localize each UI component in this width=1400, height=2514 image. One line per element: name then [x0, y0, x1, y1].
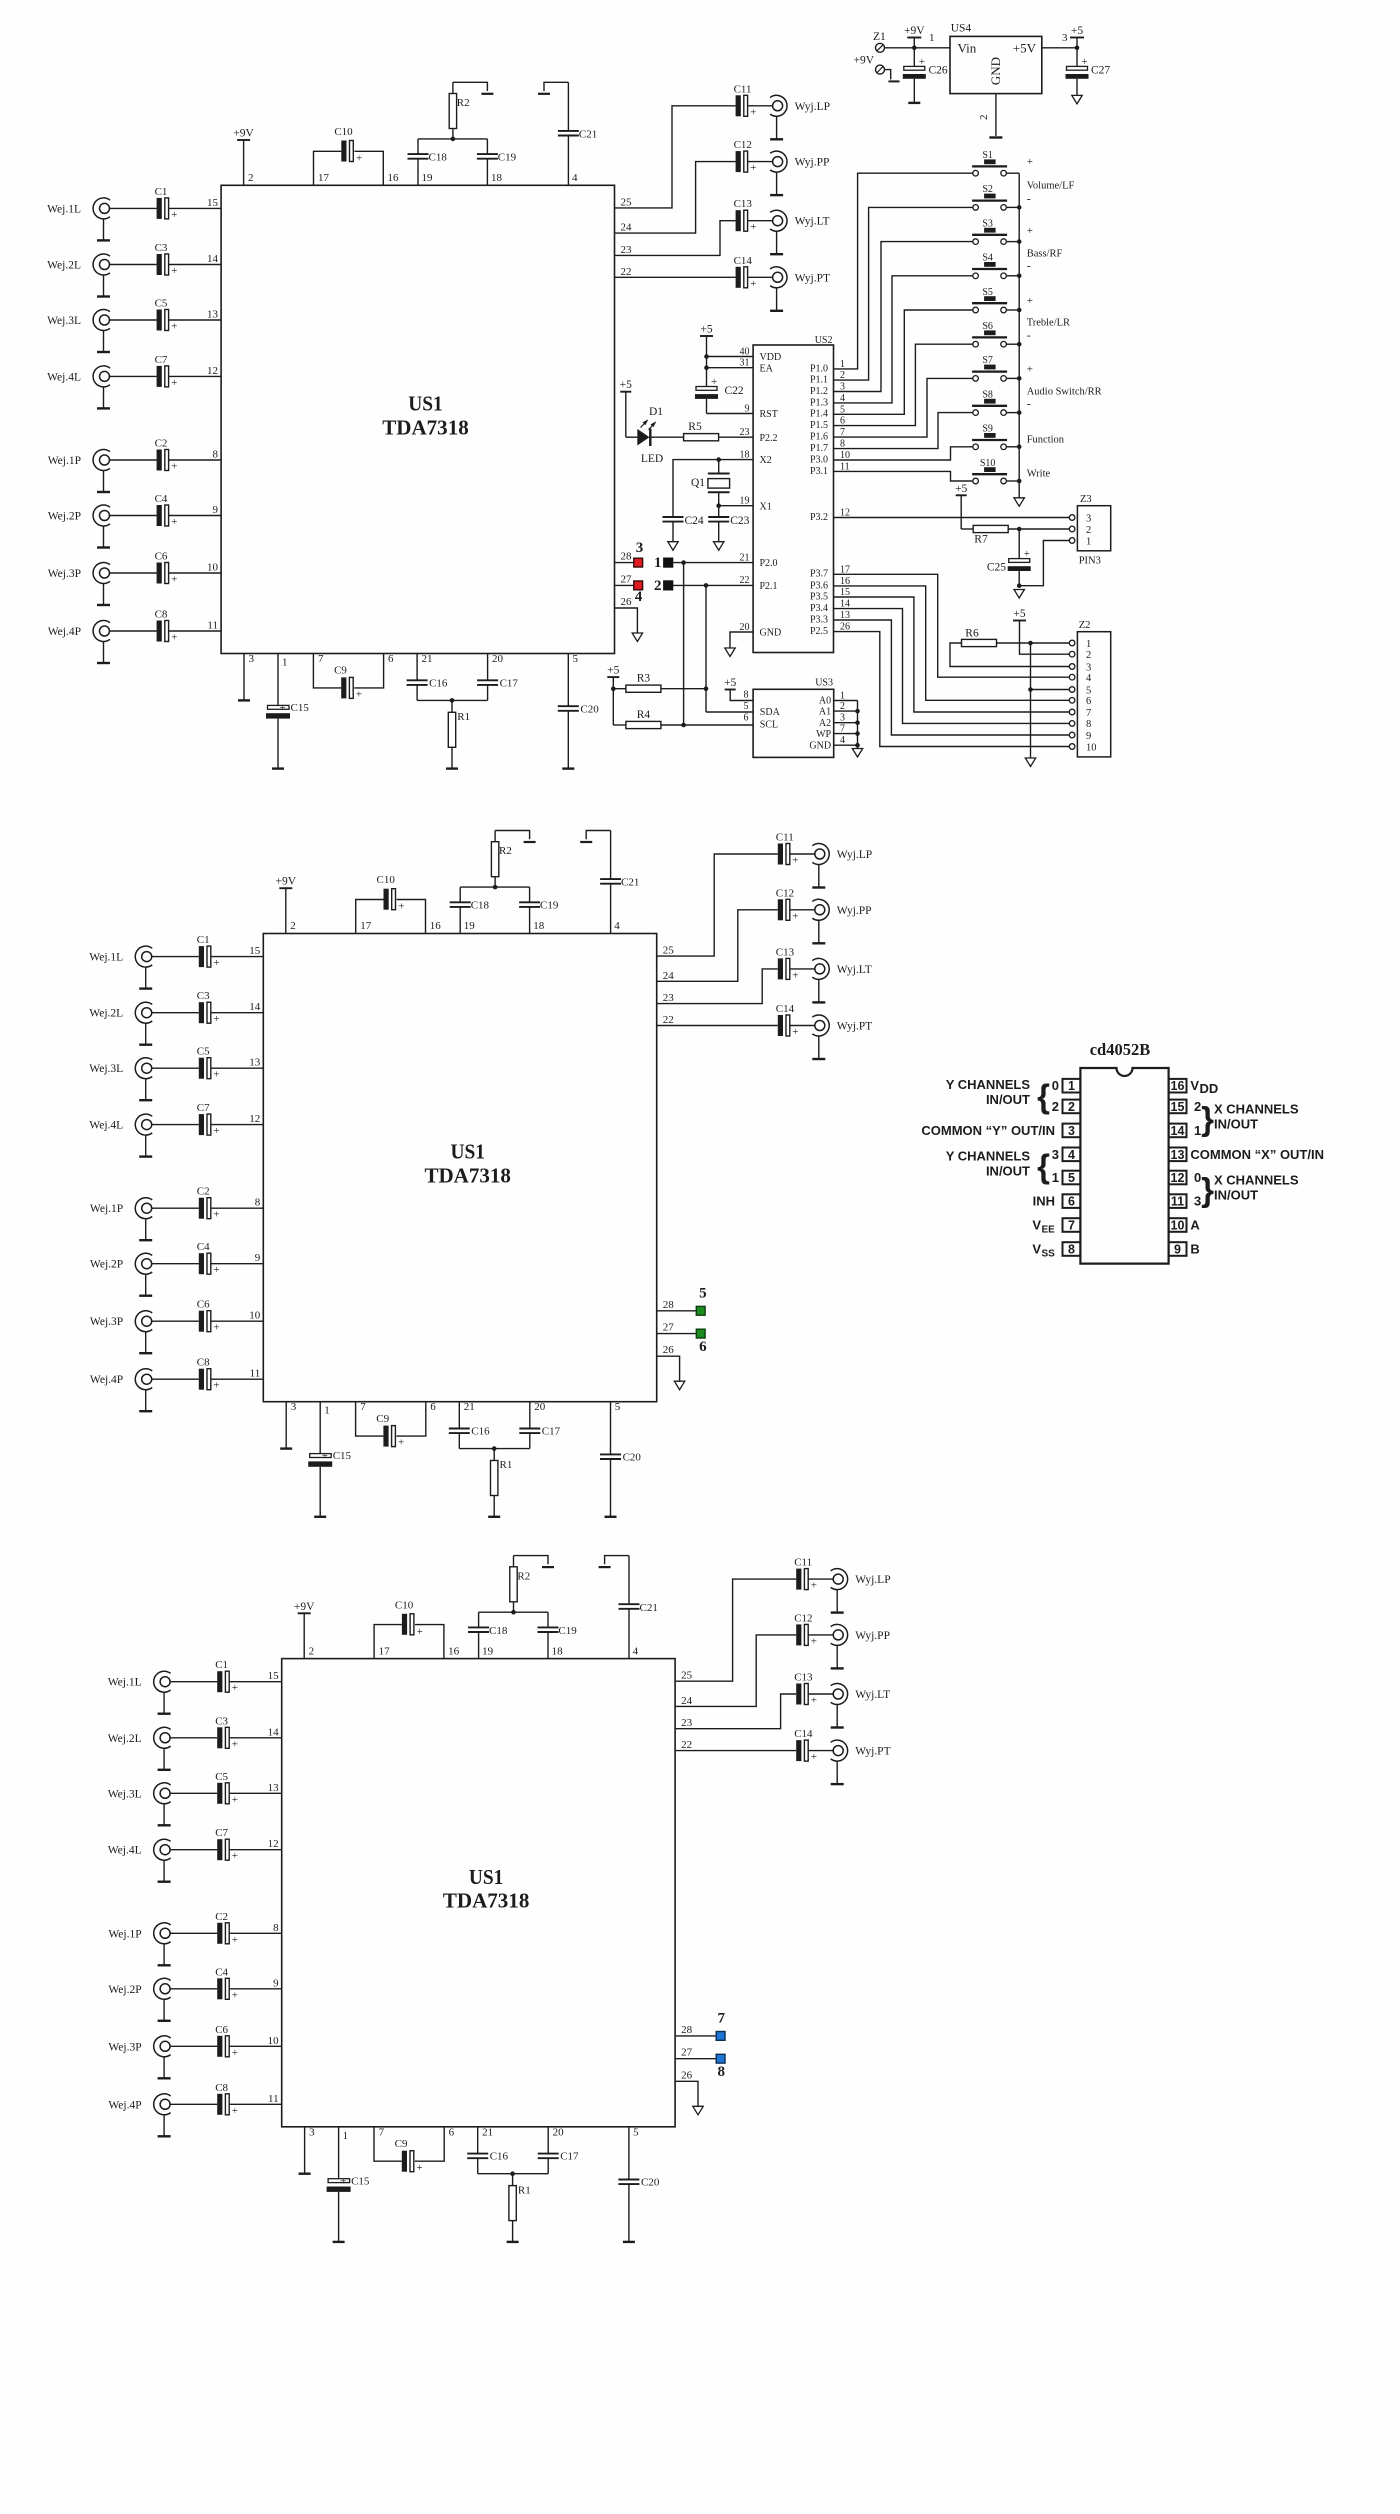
ground bar for C15 [333, 2241, 345, 2243]
svg-text:9: 9 [1174, 1243, 1181, 1257]
svg-text:C27: C27 [1091, 65, 1110, 77]
schematic variant 3: TDA7318 standalone (blue) [108, 1556, 891, 2243]
wire SDA vertical [705, 585, 707, 712]
svg-text:8: 8 [1086, 719, 1091, 730]
svg-text:16: 16 [388, 172, 400, 184]
input jack Wej.2L [47, 254, 110, 297]
svg-text:+: + [750, 278, 756, 290]
svg-text:Y CHANNELS: Y CHANNELS [946, 1077, 1031, 1092]
input jack Wej.3L [47, 310, 110, 353]
capacitor C10 across pins 17,16 [374, 1599, 460, 1658]
svg-text:Treble/LR: Treble/LR [1027, 317, 1070, 328]
wire US1 pin 23 to C13 [657, 969, 778, 1004]
US3 right pins to ground [809, 690, 859, 751]
svg-text:C6: C6 [197, 1299, 210, 1311]
svg-text:B: B [1190, 1242, 1199, 1257]
wire Wej.3L to C5 [151, 1067, 199, 1069]
svg-text:C2: C2 [197, 1186, 210, 1198]
svg-text:6: 6 [699, 1339, 707, 1355]
svg-text:10: 10 [1171, 1219, 1185, 1233]
resistor R1 [448, 700, 470, 768]
svg-text:Function: Function [1027, 435, 1065, 446]
svg-text:-: - [1027, 192, 1031, 206]
svg-text:C21: C21 [640, 1602, 658, 1614]
wire US2 to switch S10 [834, 471, 973, 481]
wire US1 pin 22 to C14 [657, 1014, 778, 1026]
wire X2 to C24 column [673, 460, 753, 516]
node C16-C17-R1 junction [450, 698, 455, 703]
svg-text:5: 5 [1086, 685, 1091, 696]
svg-text:+: + [750, 106, 756, 118]
svg-text:TDA7318: TDA7318 [424, 1164, 511, 1188]
capacitor C13 [734, 198, 757, 233]
svg-text:R6: R6 [965, 628, 979, 640]
svg-text:X CHANNELS: X CHANNELS [1214, 1102, 1299, 1117]
wire C14 to jack Wyj.PT [747, 276, 772, 278]
svg-text:21: 21 [482, 2126, 493, 2138]
wire US2 to switch S5 [834, 310, 973, 414]
svg-text:Wyj.PP: Wyj.PP [795, 157, 830, 169]
wire SCL vertical [683, 563, 685, 725]
svg-text:S6: S6 [982, 321, 993, 332]
svg-text:23: 23 [740, 427, 750, 438]
ground bar for Wyj.PP [812, 942, 825, 944]
svg-text:S2: S2 [982, 184, 993, 195]
svg-text:C11: C11 [794, 1557, 812, 1569]
svg-text:1: 1 [1086, 536, 1091, 547]
svg-text:11: 11 [1171, 1195, 1184, 1209]
capacitor C8 [215, 2082, 238, 2117]
junction X2-Q1 [716, 457, 721, 462]
+5 supply at C27 [1070, 25, 1084, 48]
svg-text:X CHANNELS: X CHANNELS [1214, 1173, 1299, 1188]
svg-text:23: 23 [681, 1717, 693, 1729]
svg-text:A0: A0 [819, 696, 831, 707]
svg-text:+: + [213, 1380, 219, 1392]
svg-text:27: 27 [681, 2047, 693, 2059]
svg-text:+: + [171, 574, 177, 586]
input jack Wej.2P [108, 1978, 170, 2021]
ground bar for Wej.4P [139, 1410, 152, 1412]
switch S10 [972, 458, 1007, 484]
svg-text:COMMON “X” OUT/IN: COMMON “X” OUT/IN [1190, 1147, 1324, 1162]
svg-text:22: 22 [740, 575, 750, 586]
svg-text:4: 4 [840, 735, 845, 746]
output jack Wyj.LP [770, 95, 830, 139]
ground stub left of C21 [580, 831, 610, 843]
wire C13 to jack Wyj.LT [808, 1693, 833, 1695]
wire US1 pin 24 to C12 [657, 910, 778, 982]
wire US1 pin 28 to node 7 [675, 2024, 716, 2036]
node C16-C17-R1 junction [492, 1446, 497, 1451]
US3 left pin labels [744, 701, 781, 731]
wire C3 to US1 pin 14 [168, 253, 221, 265]
wire C2 to US1 pin 8 [211, 1197, 264, 1209]
svg-text:PIN3: PIN3 [1079, 556, 1101, 567]
capacitor C19 on pin 18 [538, 1612, 578, 1658]
svg-text:8: 8 [273, 1922, 279, 1934]
svg-text:C16: C16 [471, 1426, 490, 1438]
capacitor C7 [155, 354, 178, 389]
capacitor C19 on pin 18 [477, 139, 517, 185]
ground stub right of R2 [514, 1556, 555, 1568]
svg-text:C2: C2 [155, 438, 168, 450]
svg-text:+: + [416, 2162, 422, 2174]
wire Wej.3P to C6 [109, 572, 157, 574]
+5 supply for LED [620, 379, 638, 437]
svg-text:C13: C13 [794, 1672, 813, 1684]
svg-text:10: 10 [249, 1310, 261, 1322]
node R2-C18-C19 junction [451, 137, 456, 142]
svg-text:C18: C18 [489, 1625, 508, 1637]
switch S7 [972, 355, 1007, 381]
capacitor C5 [197, 1046, 220, 1081]
svg-text:2: 2 [290, 920, 296, 932]
wire US2 to switch S4 [834, 276, 973, 403]
svg-text:1: 1 [282, 657, 288, 669]
svg-text:19: 19 [482, 1645, 494, 1657]
svg-text:S9: S9 [982, 424, 993, 435]
+5 pullup supply R3 R4 [607, 665, 619, 725]
wire C6 to US1 pin 10 [211, 1310, 264, 1322]
capacitor C16 on pin 21 [449, 1401, 494, 1448]
wire US1 pin 22 to C14 [675, 1739, 796, 1751]
svg-text:Bass/RF: Bass/RF [1027, 248, 1063, 259]
wire C5 to US1 pin 13 [229, 1782, 282, 1794]
svg-text:2: 2 [1068, 1100, 1075, 1114]
junction R7-C25 [1017, 527, 1022, 532]
svg-text:Wyj.PT: Wyj.PT [855, 1746, 890, 1758]
svg-text:C3: C3 [155, 242, 168, 254]
svg-text:+: + [1027, 295, 1033, 307]
wire switch S3 to bus [1006, 239, 1021, 244]
svg-text:+5: +5 [607, 665, 619, 677]
switch S8 [972, 389, 1007, 415]
wire switch S7 to bus [1006, 376, 1021, 381]
svg-text:Wyj.PP: Wyj.PP [837, 905, 872, 917]
wire C13 to jack Wyj.LT [790, 968, 815, 970]
svg-text:C20: C20 [580, 703, 599, 715]
svg-text:25: 25 [621, 196, 633, 208]
+5 to US3 pin 8 [724, 677, 753, 701]
wire switch S2 to bus [1006, 205, 1021, 210]
wire US1 pin 28 to node 5 [657, 1299, 697, 1311]
svg-text:13: 13 [207, 309, 219, 321]
capacitor C8 [155, 609, 178, 644]
wire switch S4 to bus [1006, 274, 1021, 279]
svg-text:C16: C16 [429, 677, 448, 689]
ground bar for Wyj.PP [831, 1667, 844, 1669]
svg-text:6: 6 [744, 712, 749, 723]
wire US2 to Z2 [834, 632, 1070, 747]
svg-text:C19: C19 [558, 1625, 577, 1637]
svg-text:+: + [398, 1437, 404, 1449]
wire C8 to US1 pin 11 [168, 620, 221, 632]
node R2-C18-C19 junction [511, 1610, 516, 1615]
ground stub left of C21 [538, 82, 568, 94]
cd4052B left labels [921, 1077, 1059, 1260]
svg-text:1: 1 [929, 32, 935, 44]
svg-text:C14: C14 [776, 1003, 795, 1015]
svg-text:18: 18 [552, 1645, 564, 1657]
svg-text:+5: +5 [1013, 608, 1025, 620]
wire Wej.1L to C1 [109, 207, 157, 209]
svg-text:13: 13 [268, 1782, 280, 1794]
svg-text:Wej.4L: Wej.4L [108, 1845, 142, 1857]
capacitor C6 [155, 551, 178, 586]
wire Wej.3L to C5 [109, 319, 157, 321]
svg-text:+: + [232, 1850, 238, 1862]
resistor R3 [626, 673, 706, 693]
ground stub left of C21 [599, 1556, 629, 1568]
svg-text:+: + [792, 1026, 798, 1038]
svg-text:C10: C10 [334, 126, 353, 138]
svg-text:C17: C17 [542, 1426, 561, 1438]
svg-text:C25: C25 [987, 562, 1006, 574]
input jack Wej.2P [48, 505, 110, 548]
capacitor C18 on pin 19 [468, 1612, 508, 1658]
svg-text:-: - [1027, 397, 1031, 411]
svg-text:+: + [171, 209, 177, 221]
input jack Wej.4P [90, 1369, 152, 1412]
capacitor C4 [197, 1241, 220, 1276]
svg-text:5: 5 [633, 2126, 639, 2138]
svg-text:28: 28 [663, 1299, 675, 1311]
resistor R2 [449, 82, 469, 139]
input jack Wej.3P [90, 1311, 152, 1353]
svg-text:19: 19 [464, 920, 476, 932]
svg-text:C6: C6 [155, 551, 168, 563]
svg-text:15: 15 [207, 197, 219, 209]
svg-text:Wej.3L: Wej.3L [47, 315, 81, 327]
wire C1 to US1 pin 15 [229, 1670, 282, 1682]
svg-text:R2: R2 [517, 1570, 530, 1582]
+5 supply for Z2 [1013, 608, 1069, 654]
capacitor C3 [155, 242, 178, 277]
svg-text:US1: US1 [469, 1865, 504, 1889]
output jack Wyj.PP [812, 899, 871, 943]
svg-text:+: + [280, 702, 286, 714]
svg-text:3: 3 [1052, 1147, 1059, 1162]
svg-text:C13: C13 [776, 946, 795, 958]
capacitor C12 [734, 139, 757, 174]
svg-text:27: 27 [663, 1322, 675, 1334]
wire switch S5 to bus [1006, 308, 1021, 313]
capacitor C20 on pin 5 [558, 653, 599, 769]
svg-text:7: 7 [1086, 708, 1091, 719]
resistor R2 [491, 831, 511, 888]
svg-text:+5: +5 [955, 483, 967, 495]
svg-text:COMMON “Y” OUT/IN: COMMON “Y” OUT/IN [921, 1123, 1055, 1138]
svg-text:17: 17 [318, 172, 330, 184]
schematic variant 1: TDA7318 with microcontroller [47, 82, 830, 769]
svg-text:21: 21 [740, 552, 750, 563]
svg-text:2: 2 [1086, 650, 1091, 661]
svg-text:26: 26 [663, 1344, 675, 1356]
svg-text:P3.1: P3.1 [810, 466, 828, 477]
wire X1 [719, 505, 753, 507]
svg-text:C9: C9 [395, 2138, 408, 2150]
ground arrow switch bus [1014, 498, 1024, 507]
ground bar for Wej.2L [158, 1769, 171, 1771]
svg-text:11: 11 [250, 1368, 261, 1380]
svg-text:{: { [1037, 1078, 1050, 1115]
connector Z2 [1069, 620, 1110, 757]
wire C6 to US1 pin 10 [229, 2035, 282, 2047]
junction C25 ground [1017, 583, 1022, 588]
wire Wej.2P to C4 [151, 1263, 199, 1265]
svg-text:Wyj.LP: Wyj.LP [795, 101, 830, 113]
svg-text:+9V: +9V [294, 1601, 315, 1613]
wire C22 to RST [707, 413, 754, 415]
svg-text:Wej.2L: Wej.2L [47, 260, 81, 272]
capacitor C9 across pins 7,6 [356, 1401, 437, 1449]
svg-text:25: 25 [681, 1670, 693, 1682]
wire node2 to US2 P2.1 [673, 584, 754, 586]
input jack Wej.3P [108, 2036, 170, 2079]
svg-text:P3.7: P3.7 [810, 569, 828, 580]
switch S4 [972, 253, 1007, 279]
svg-text:D1: D1 [649, 406, 663, 418]
svg-text:+: + [171, 377, 177, 389]
svg-text:A2: A2 [819, 718, 831, 729]
capacitor C7 [197, 1102, 220, 1137]
svg-text:R5: R5 [688, 421, 702, 433]
svg-text:+: + [1027, 363, 1033, 375]
svg-text:Q1: Q1 [691, 477, 705, 489]
wire US1 pin 28 to node 3 [615, 551, 634, 563]
svg-text:15: 15 [249, 945, 261, 957]
input jack Wej.4P [108, 2094, 170, 2137]
wire US1 pin 27 to node 6 [657, 1322, 697, 1334]
wire C3 to US1 pin 14 [229, 1726, 282, 1738]
node square 3 [634, 540, 643, 567]
svg-text:+9V: +9V [904, 25, 925, 37]
junction R3 +5 [611, 686, 626, 691]
+9V supply at C26 [904, 25, 925, 48]
svg-text:Wej.4L: Wej.4L [47, 371, 81, 383]
wire US1 pin 24 to C12 [675, 1635, 796, 1707]
node black square 1 (SCL) [654, 555, 673, 571]
svg-text:GND: GND [760, 628, 782, 639]
node R2-C18-C19 junction [493, 885, 498, 890]
svg-text:P2.2: P2.2 [760, 433, 778, 444]
input jack Wej.1P [48, 450, 110, 493]
svg-text:4: 4 [572, 172, 578, 184]
svg-text:C18: C18 [429, 152, 448, 164]
capacitor C27 [1066, 56, 1111, 96]
svg-text:C6: C6 [215, 2024, 228, 2036]
svg-text:14: 14 [268, 1726, 280, 1738]
output jack Wyj.LP [812, 844, 872, 888]
svg-text:12: 12 [1171, 1171, 1185, 1185]
capacitor C5 [215, 1771, 238, 1806]
svg-text:Wej.1L: Wej.1L [108, 1677, 142, 1689]
svg-text:Wej.3P: Wej.3P [90, 1316, 123, 1328]
svg-text:9: 9 [213, 504, 219, 516]
capacitor C1 [197, 934, 220, 969]
svg-text:+: + [232, 2105, 238, 2117]
resistor R7 [973, 525, 1069, 545]
svg-text:C4: C4 [155, 493, 168, 505]
wire C7 to US1 pin 12 [211, 1113, 264, 1125]
svg-text:+9V: +9V [853, 55, 874, 67]
svg-text:C9: C9 [334, 665, 347, 677]
wire Wej.2P to C4 [109, 515, 157, 517]
capacitor C19 on pin 18 [519, 887, 559, 933]
capacitor C11 [794, 1557, 817, 1592]
input jack Wej.1L [108, 1671, 171, 1714]
svg-text:C5: C5 [215, 1771, 228, 1783]
svg-text:C1: C1 [155, 186, 168, 198]
junction C26 [912, 46, 917, 67]
node square 6 [696, 1329, 707, 1355]
wire US1 pin 25 to C11 [657, 854, 778, 957]
svg-text:C26: C26 [929, 65, 948, 77]
svg-text:17: 17 [360, 920, 372, 932]
wire US1 pin 23 to C13 [615, 221, 736, 256]
input jack Wej.2L [89, 1002, 152, 1044]
ground arrow C24 [668, 542, 678, 551]
svg-text:10: 10 [207, 562, 219, 574]
svg-text:C1: C1 [197, 934, 210, 946]
svg-text:P1.1: P1.1 [810, 375, 828, 386]
junction on SCL wire [681, 560, 686, 565]
svg-text:Wej.2P: Wej.2P [90, 1259, 123, 1271]
ground bar for Wyj.PT [812, 1058, 825, 1060]
svg-text:+: + [232, 2047, 238, 2059]
svg-text:V: V [1190, 1078, 1199, 1093]
svg-text:5: 5 [573, 653, 579, 665]
switch S6 [972, 321, 1007, 347]
svg-text:3: 3 [1068, 1124, 1075, 1138]
svg-text:15: 15 [1171, 1100, 1185, 1114]
svg-text:20: 20 [740, 622, 750, 633]
LED D1 [637, 406, 684, 465]
svg-text:S4: S4 [982, 253, 993, 264]
svg-text:+5: +5 [1071, 25, 1083, 37]
capacitor C17 on pin 20 [452, 653, 518, 700]
svg-text:9: 9 [255, 1252, 261, 1264]
ground bar for Wej.4L [97, 407, 110, 409]
svg-text:Z2: Z2 [1079, 620, 1091, 631]
schematic variant 2: TDA7318 standalone (green) [89, 831, 872, 1518]
capacitor C13 [794, 1672, 817, 1707]
resistor R1 [491, 1449, 513, 1517]
svg-text:Wej.1L: Wej.1L [89, 952, 123, 964]
svg-text:C16: C16 [490, 2151, 509, 2163]
IC US3 EEPROM body [753, 678, 834, 758]
svg-text:S10: S10 [980, 458, 996, 469]
wire US2 to Z2 [834, 586, 1070, 700]
ground bar for Wej.3L [139, 1099, 152, 1101]
input jack Wej.2L [108, 1727, 171, 1770]
svg-text:26: 26 [681, 2069, 693, 2081]
input jack Wej.3L [108, 1783, 171, 1826]
svg-text:4: 4 [635, 589, 643, 605]
wire C1 to US1 pin 15 [168, 197, 221, 209]
wire Wej.4P to C8 [151, 1378, 199, 1380]
svg-text:C1: C1 [215, 1659, 228, 1671]
capacitor C11 [776, 832, 799, 867]
svg-text:R1: R1 [457, 711, 470, 723]
capacitor C17 on pin 20 [494, 1401, 560, 1448]
wire joining C18 and C19 [479, 1611, 548, 1613]
svg-text:22: 22 [663, 1014, 674, 1026]
wire SDA into US3 [706, 711, 753, 713]
svg-text:SDA: SDA [760, 707, 781, 718]
wire C13 to jack Wyj.LT [747, 220, 772, 222]
